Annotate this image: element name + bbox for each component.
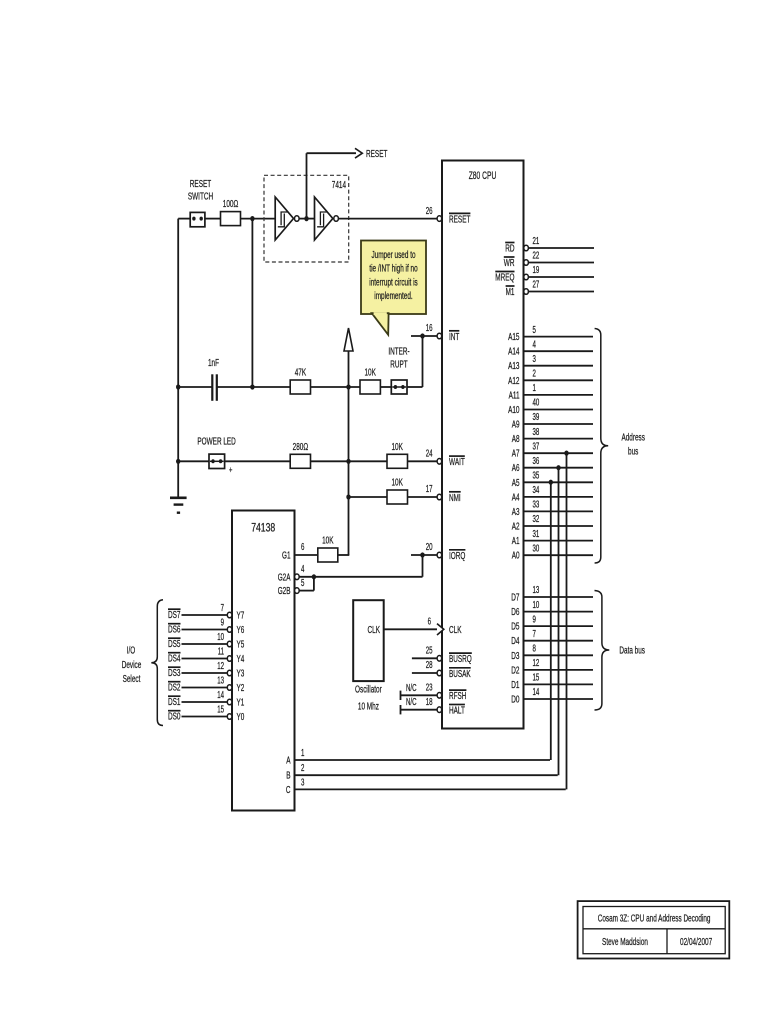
svg-text:16: 16: [426, 323, 433, 334]
pin 27 M1 of U1 (bubble + wire + labels): [506, 279, 594, 298]
wire left of switch: [178, 218, 190, 220]
wire A6 to 74138 pin B: [295, 468, 559, 776]
svg-text:G2B: G2B: [278, 585, 291, 597]
svg-text:10: 10: [217, 632, 224, 643]
svg-text:10 Mhz: 10 Mhz: [358, 701, 379, 713]
pin 8 D3 of U1 (wire + labels): [511, 644, 593, 662]
svg-text:27: 27: [533, 279, 540, 290]
pin 19 MREQ of U1 (bubble + wire + labels): [495, 265, 594, 284]
wire RFSH N/C stub: [401, 683, 438, 700]
jumper INTERRUPT: [380, 346, 410, 395]
wire G2B up to G2A net: [299, 577, 314, 591]
svg-text:Steve Maddsion: Steve Maddsion: [602, 936, 648, 948]
switch RESET SWITCH: [188, 178, 213, 227]
svg-text:A3: A3: [512, 506, 520, 518]
wire switch to resistor: [205, 218, 221, 220]
svg-text:14: 14: [533, 687, 540, 698]
IC U1 Z80 CPU box: [442, 161, 524, 729]
svg-text:31: 31: [533, 529, 540, 540]
svg-text:6: 6: [301, 542, 305, 553]
title block: [578, 901, 730, 958]
svg-text:Oscillator: Oscillator: [355, 684, 382, 696]
inverter 7414A: [275, 197, 299, 240]
pin 9 Y6 of U2 (bubble + wire + labels): [168, 618, 244, 636]
wire 47K to Vcc rail: [311, 386, 361, 388]
svg-text:DS1: DS1: [168, 696, 181, 708]
svg-text:1: 1: [301, 748, 305, 759]
wire to RESET net arrow: [307, 153, 357, 218]
wire jumper to INT pin: [407, 336, 423, 387]
svg-text:DS6: DS6: [168, 624, 181, 636]
pin 23 RFSH of U1 (bubble + labels): [426, 683, 467, 703]
data bus brace: [595, 591, 646, 711]
pin 26 RESET of U1 (bubble + labels): [426, 206, 471, 226]
svg-text:35: 35: [533, 471, 540, 482]
svg-text:9: 9: [533, 614, 537, 625]
svg-text:280Ω: 280Ω: [293, 441, 309, 453]
svg-text:A10: A10: [508, 404, 519, 416]
resistor 280Ω: [290, 441, 310, 469]
svg-text:Y6: Y6: [237, 624, 245, 636]
wire WAIT resistor to pin: [408, 460, 438, 462]
svg-text:37: 37: [533, 441, 540, 452]
wire Vcc rail to NMI pull-up: [349, 496, 388, 498]
Vcc supply arrow: [344, 328, 353, 351]
svg-text:40: 40: [533, 398, 540, 409]
pin 4 G2A of U2 (bubble + labels): [278, 564, 305, 583]
svg-text:CLK: CLK: [449, 624, 462, 636]
svg-text:A11: A11: [509, 389, 520, 401]
svg-text:D4: D4: [511, 635, 519, 647]
capacitor 1nF: [208, 357, 219, 401]
svg-text:32: 32: [533, 514, 540, 525]
node capacitor/RC junction: [250, 384, 254, 389]
svg-text:RESET: RESET: [190, 178, 212, 190]
pin 16 INT of U1 (bubble + labels): [426, 323, 460, 343]
svg-text:8: 8: [533, 644, 537, 655]
wire BUSAK stub: [412, 672, 437, 674]
svg-text:A9: A9: [512, 419, 520, 431]
svg-text:1: 1: [533, 383, 537, 394]
svg-text:74138: 74138: [251, 523, 275, 535]
svg-text:5: 5: [301, 578, 305, 589]
svg-text:RUPT: RUPT: [390, 359, 408, 371]
svg-text:30: 30: [533, 543, 540, 554]
pin 39 A9 of U1 (wire + labels): [512, 412, 593, 430]
pin 11 Y4 of U2 (bubble + wire + labels): [168, 647, 244, 665]
svg-text:D1: D1: [511, 679, 519, 691]
node A6 junction: [556, 465, 560, 470]
svg-text:4: 4: [533, 339, 537, 350]
svg-text:13: 13: [533, 585, 540, 596]
svg-text:39: 39: [533, 412, 540, 423]
svg-text:5: 5: [533, 325, 537, 336]
svg-text:D7: D7: [511, 592, 519, 604]
wire IORQ stub: [411, 554, 437, 556]
wire capacitor to 47K: [217, 386, 290, 388]
svg-text:B: B: [286, 770, 290, 782]
wire A5 to 74138 pin A: [295, 482, 551, 760]
svg-text:10K: 10K: [392, 477, 403, 489]
I/O Device Select brace: [122, 600, 163, 726]
pin 1 A11 of U1 (wire + labels): [509, 383, 593, 401]
node Vcc rail junction 2: [346, 459, 350, 464]
svg-text:Cosam 3Z: CPU and Address Deco: Cosam 3Z: CPU and Address Decoding: [598, 913, 711, 925]
svg-text:Y2: Y2: [237, 682, 245, 694]
svg-text:tie /INT high if no: tie /INT high if no: [369, 263, 417, 275]
svg-text:33: 33: [533, 500, 540, 511]
svg-text:26: 26: [426, 206, 433, 217]
node Vcc rail junction 3: [346, 494, 350, 499]
pin 24 WAIT of U1 (bubble + labels): [426, 449, 465, 469]
svg-text:DS5: DS5: [168, 638, 181, 650]
IC U2 74138 box: [232, 511, 295, 811]
node RESET output junction: [304, 216, 308, 221]
svg-text:21: 21: [533, 236, 540, 247]
pin 7 Y7 of U2 (bubble + wire + labels): [168, 603, 244, 621]
wire 280Ω to WAIT pull-up: [311, 460, 388, 462]
wire left rail: [177, 219, 179, 497]
svg-text:3: 3: [301, 777, 305, 788]
pin 3 C of U2 (labels): [286, 777, 305, 796]
svg-text:IORQ: IORQ: [449, 550, 465, 562]
node rail/LED junction: [176, 459, 180, 464]
node IORQ junction: [420, 552, 424, 557]
pin 5 A15 of U1 (wire + labels): [508, 325, 593, 343]
pin 38 A8 of U1 (wire + labels): [512, 427, 593, 445]
pin 13 Y2 of U2 (bubble + wire + labels): [168, 676, 244, 694]
svg-text:+: +: [229, 465, 233, 476]
wire rail to capacitor: [178, 386, 212, 388]
svg-text:Address: Address: [621, 432, 645, 444]
svg-text:interrupt circuit is: interrupt circuit is: [369, 276, 417, 288]
node rail/capacitor junction: [176, 384, 180, 389]
wire inverter B to CPU RESET pin: [339, 218, 438, 220]
pin 31 A1 of U1 (wire + labels): [512, 529, 593, 547]
wire oscillator CLK to CPU: [384, 628, 437, 630]
svg-text:18: 18: [426, 697, 433, 708]
wire LED to 280Ω: [225, 460, 291, 462]
pin 18 HALT of U1 (bubble + labels): [426, 697, 466, 717]
svg-text:DS7: DS7: [168, 609, 181, 621]
svg-text:N/C: N/C: [406, 683, 417, 694]
resistor 100Ω: [221, 198, 241, 226]
IC 7414 dashed outline: [264, 175, 349, 262]
pin 22 WR of U1 (bubble + wire + labels): [504, 250, 594, 269]
svg-text:9: 9: [221, 618, 225, 629]
svg-text:N/C: N/C: [406, 697, 417, 708]
svg-text:2: 2: [533, 369, 537, 380]
svg-text:A6: A6: [512, 462, 520, 474]
svg-text:15: 15: [217, 705, 224, 716]
wire between inverters: [299, 218, 314, 220]
svg-text:12: 12: [533, 658, 540, 669]
pin 17 NMI of U1 (bubble + labels): [426, 484, 461, 504]
svg-text:Select: Select: [123, 673, 141, 685]
svg-text:10K: 10K: [365, 367, 376, 379]
svg-text:CLK: CLK: [368, 624, 381, 636]
svg-text:A8: A8: [512, 433, 520, 445]
svg-text:G2A: G2A: [278, 571, 291, 583]
pin 13 D7 of U1 (wire + labels): [511, 585, 593, 603]
wire A7 to 74138 pin C: [295, 453, 567, 789]
pin 21 RD of U1 (bubble + wire + labels): [505, 236, 594, 255]
resistor 47K: [290, 367, 310, 395]
svg-text:NMI: NMI: [449, 492, 461, 504]
svg-text:D0: D0: [511, 694, 519, 706]
svg-text:38: 38: [533, 427, 540, 438]
svg-text:A7: A7: [512, 448, 520, 460]
pin 32 A2 of U1 (wire + labels): [512, 514, 593, 532]
svg-text:A5: A5: [512, 477, 520, 489]
svg-text:G1: G1: [282, 550, 291, 562]
svg-text:DS4: DS4: [168, 653, 181, 665]
pin 6 G1 of U2 (labels): [282, 542, 305, 561]
wire resistor to Vcc rail: [338, 554, 350, 556]
svg-text:A4: A4: [512, 491, 520, 503]
svg-text:D6: D6: [511, 606, 519, 618]
svg-text:A: A: [286, 755, 290, 767]
svg-text:D3: D3: [511, 650, 519, 662]
svg-text:BUSAK: BUSAK: [449, 668, 471, 680]
svg-text:34: 34: [533, 485, 540, 496]
pin 4 A14 of U1 (wire + labels): [508, 339, 593, 357]
svg-text:A14: A14: [508, 346, 519, 358]
pin 9 D5 of U1 (wire + labels): [511, 614, 593, 632]
svg-text:HALT: HALT: [449, 705, 465, 717]
pin 35 A5 of U1 (wire + labels): [512, 471, 593, 489]
svg-text:DS0: DS0: [168, 711, 181, 723]
svg-text:36: 36: [533, 456, 540, 467]
node A5 junction: [549, 480, 553, 485]
LED POWER LED: [197, 436, 236, 477]
pin 1 A of U2 (labels): [286, 748, 304, 767]
resistor 10K G1 pull-up: [318, 535, 338, 563]
svg-text:100Ω: 100Ω: [223, 198, 239, 210]
svg-text:A0: A0: [512, 550, 520, 562]
wire rail to LED: [178, 460, 209, 462]
pin 12 Y3 of U2 (bubble + wire + labels): [168, 661, 244, 679]
svg-text:C: C: [286, 784, 291, 796]
pin 12 D2 of U1 (wire + labels): [511, 658, 593, 676]
svg-text:RESET: RESET: [366, 148, 388, 160]
svg-text:Y5: Y5: [237, 639, 245, 651]
svg-text:M1: M1: [506, 286, 515, 298]
svg-text:Jumper used to: Jumper used to: [371, 249, 415, 261]
svg-text:25: 25: [426, 646, 433, 657]
svg-text:47K: 47K: [295, 367, 306, 379]
pin 3 A13 of U1 (wire + labels): [508, 354, 593, 372]
wire HALT N/C stub: [401, 697, 438, 714]
svg-text:2: 2: [301, 763, 305, 774]
svg-text:10: 10: [533, 600, 540, 611]
svg-text:implemented.: implemented.: [374, 290, 412, 302]
pin 2 A12 of U1 (wire + labels): [508, 369, 593, 387]
wire BUSRQ stub: [412, 657, 437, 659]
svg-text:Y3: Y3: [237, 668, 245, 680]
pin 20 IORQ of U1 (bubble + labels): [426, 542, 466, 562]
svg-text:A15: A15: [508, 331, 519, 343]
wire RC junction down to capacitor: [251, 219, 253, 387]
wire G1 to resistor: [295, 554, 318, 556]
pin 14 D0 of U1 (wire + labels): [511, 687, 593, 705]
pin 30 A0 of U1 (wire + labels): [512, 543, 593, 561]
pin 7 D4 of U1 (wire + labels): [511, 629, 593, 647]
svg-text:SWITCH: SWITCH: [188, 191, 213, 203]
pin 28 BUSAK of U1 (bubble + labels): [426, 660, 471, 680]
node A7 junction: [564, 451, 568, 456]
svg-text:7: 7: [533, 629, 537, 640]
svg-text:RESET: RESET: [449, 213, 471, 225]
svg-text:RD: RD: [505, 243, 515, 255]
svg-text:Y1: Y1: [237, 697, 245, 709]
wire Vcc rail vertical: [348, 351, 350, 555]
svg-text:20: 20: [426, 542, 433, 553]
inverter 7414B: [315, 197, 339, 240]
svg-text:POWER LED: POWER LED: [197, 436, 236, 448]
svg-text:MREQ: MREQ: [495, 272, 514, 284]
svg-text:15: 15: [533, 673, 540, 684]
callout note (jumper explanation): [361, 241, 426, 335]
svg-text:Data bus: Data bus: [619, 645, 645, 657]
pin 5 G2B of U2 (bubble + labels): [278, 578, 305, 597]
node INT junction: [420, 333, 424, 338]
svg-text:10K: 10K: [322, 535, 333, 547]
svg-text:10K: 10K: [392, 441, 403, 453]
svg-text:Device: Device: [122, 659, 142, 671]
svg-text:D2: D2: [511, 664, 519, 676]
svg-text:19: 19: [533, 265, 540, 276]
pin 40 A10 of U1 (wire + labels): [508, 398, 593, 416]
node RESET net arrowhead: [355, 148, 388, 160]
svg-text:INT: INT: [449, 331, 460, 343]
pin 10 D6 of U1 (wire + labels): [511, 600, 593, 618]
svg-text:24: 24: [426, 449, 433, 460]
svg-text:13: 13: [217, 676, 224, 687]
pin 14 Y1 of U2 (bubble + wire + labels): [168, 690, 244, 708]
svg-text:DS3: DS3: [168, 667, 181, 679]
svg-text:A12: A12: [508, 375, 519, 387]
oscillator 10 Mhz box: [353, 600, 384, 712]
svg-text:7: 7: [221, 603, 225, 614]
svg-text:28: 28: [426, 660, 433, 671]
node Vcc rail junction 1: [346, 384, 350, 389]
svg-text:1nF: 1nF: [208, 357, 219, 369]
svg-text:3: 3: [533, 354, 537, 365]
wire NMI resistor to pin: [408, 496, 438, 498]
pin 15 D1 of U1 (wire + labels): [511, 673, 593, 691]
pin 25 BUSRQ of U1 (bubble + labels): [426, 646, 472, 666]
svg-text:14: 14: [217, 690, 224, 701]
address bus brace: [595, 329, 645, 564]
svg-text:6: 6: [428, 617, 432, 628]
svg-text:4: 4: [301, 564, 305, 575]
resistor 10K WAIT pull-up: [387, 441, 408, 469]
svg-text:Y7: Y7: [237, 610, 245, 622]
svg-text:bus: bus: [628, 446, 638, 458]
svg-text:Y0: Y0: [237, 711, 245, 723]
svg-text:23: 23: [426, 683, 433, 694]
node RC junction: [250, 216, 254, 221]
svg-text:I/O: I/O: [127, 644, 136, 656]
resistor 10K INT pull-up: [360, 367, 380, 395]
svg-text:BUSRQ: BUSRQ: [449, 653, 472, 665]
pin 2 B of U2 (labels): [286, 763, 304, 782]
node G2A/G2B junction: [312, 574, 316, 579]
svg-text:WR: WR: [504, 257, 515, 269]
pin 37 A7 of U1 (wire + labels): [512, 441, 593, 459]
svg-text:22: 22: [533, 250, 540, 261]
wire resistor to inverter A: [241, 218, 276, 220]
svg-text:INTER-: INTER-: [388, 346, 410, 358]
svg-text:12: 12: [217, 661, 224, 672]
pin 10 Y5 of U2 (bubble + wire + labels): [168, 632, 244, 650]
svg-text:WAIT: WAIT: [449, 456, 465, 468]
pin 33 A3 of U1 (wire + labels): [512, 500, 593, 518]
pin 34 A4 of U1 (wire + labels): [512, 485, 593, 503]
svg-text:A13: A13: [508, 360, 519, 372]
wire INT stub: [411, 335, 437, 337]
wire G2A to IORQ net: [299, 555, 422, 577]
pin 36 A6 of U1 (wire + labels): [512, 456, 593, 474]
svg-text:11: 11: [218, 647, 225, 658]
ground: [170, 498, 187, 513]
pin 6 CLK of U1 (clock chevron + labels): [428, 617, 462, 637]
svg-text:A2: A2: [512, 521, 520, 533]
svg-text:Z80 CPU: Z80 CPU: [469, 170, 497, 182]
svg-text:02/04/2007: 02/04/2007: [680, 936, 712, 948]
resistor 10K NMI pull-up: [387, 477, 408, 505]
pin 15 Y0 of U2 (bubble + wire + labels): [168, 705, 244, 723]
svg-text:Y4: Y4: [237, 653, 245, 665]
svg-text:A1: A1: [512, 535, 520, 547]
svg-text:RFSH: RFSH: [449, 690, 466, 702]
svg-text:DS2: DS2: [168, 682, 181, 694]
svg-text:17: 17: [426, 484, 433, 495]
svg-text:7414: 7414: [332, 179, 346, 191]
svg-text:D5: D5: [511, 621, 519, 633]
